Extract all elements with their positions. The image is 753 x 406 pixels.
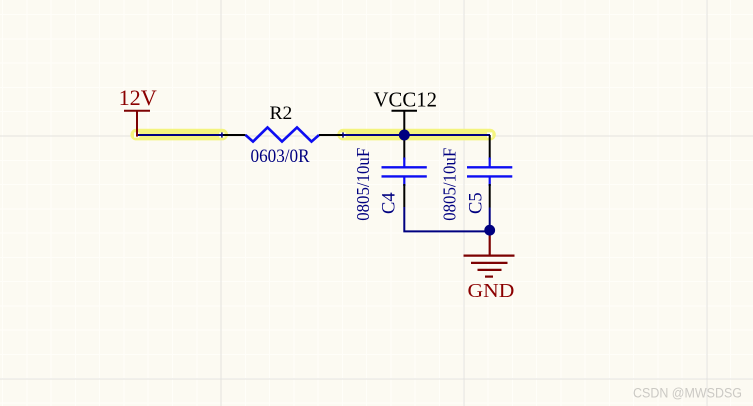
svg-text:0805/10uF: 0805/10uF: [439, 148, 459, 221]
resistor R2 left pin: [223, 134, 246, 136]
power port 12V symbol (bar): [124, 111, 150, 137]
wire C4 bottom to C5 bottom (GND net): [404, 207, 489, 231]
svg-text:GND: GND: [468, 280, 515, 302]
vertex handle (wire 2 right end): [487, 132, 492, 137]
resistor R2 body (zigzag): [246, 127, 320, 141]
svg-text:C4: C4: [379, 192, 399, 214]
vertex handle (wire 1 right end): [219, 132, 224, 137]
wire net VCC12 (highlighted): [343, 134, 491, 136]
svg-text:CSDN @MWSDSG: CSDN @MWSDSG: [633, 386, 742, 401]
wire highlight (net VCC12 selection) right segment: [337, 129, 496, 141]
wire highlight (net 12V selection) left segment: [131, 129, 229, 141]
svg-text:12V: 12V: [119, 85, 157, 110]
power port GND symbol: [464, 231, 515, 277]
junction node VCC12 (dot): [399, 130, 410, 141]
svg-text:VCC12: VCC12: [374, 87, 438, 111]
vertex handle (wire 1 left end): [134, 132, 139, 137]
svg-text:0603/0R: 0603/0R: [251, 147, 311, 167]
capacitor C5 bottom pin: [489, 184, 491, 208]
capacitor C4 top pin: [403, 135, 405, 160]
power port VCC12 symbol (bar): [392, 111, 418, 135]
vertex handle (wire 2 left end): [340, 132, 345, 137]
resistor R2 right pin: [319, 134, 343, 136]
capacitor C4 body (plates): [382, 158, 427, 187]
wire net 12V (highlighted): [136, 134, 223, 136]
svg-text:C5: C5: [466, 192, 486, 214]
capacitor C5 top pin: [489, 135, 491, 160]
svg-text:0805/10uF: 0805/10uF: [353, 148, 373, 221]
svg-text:R2: R2: [270, 103, 293, 124]
junction node GND (dot): [484, 225, 495, 236]
capacitor C4 bottom pin: [403, 184, 405, 207]
capacitor C5 body (plates): [467, 158, 512, 187]
